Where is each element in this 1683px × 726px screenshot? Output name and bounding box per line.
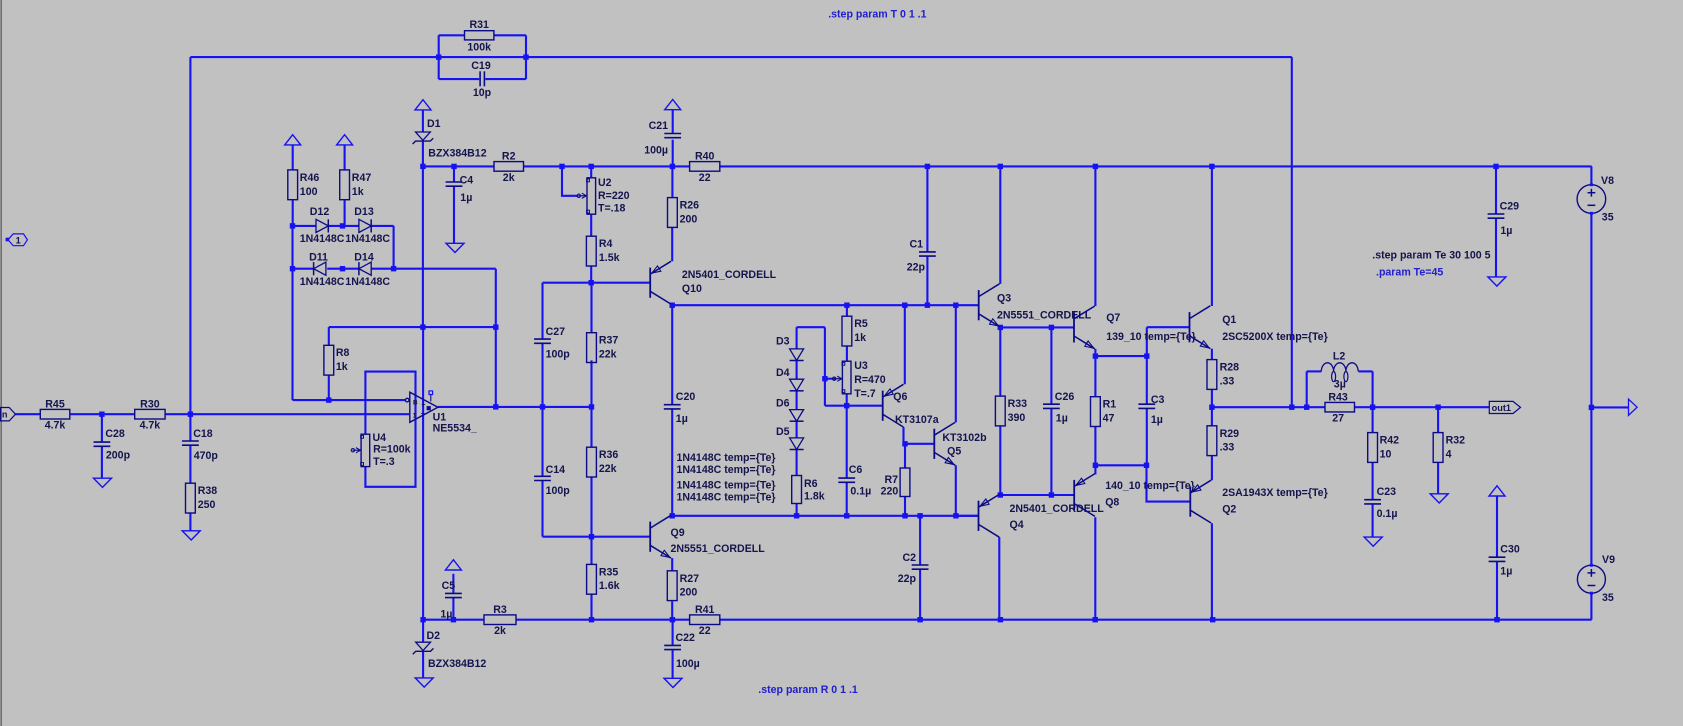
net label 1 [6,238,10,242]
transistor Q2 [1190,480,1211,523]
capacitor C20 [664,404,681,406]
junction (1496,166.4) [1493,164,1498,169]
svg-text:R7: R7 [884,474,898,486]
junction (905,443.8) [902,441,907,446]
junction (1095.4,166.4) [1093,164,1098,169]
resistor R29 [1207,426,1217,456]
wire C27 column [541,283,543,339]
transistor Q9 [650,515,671,558]
capacitor C14 [534,475,551,477]
wire C1 column [926,166,928,252]
wire D1 column [422,110,424,132]
svg-text:2SA1943X temp={Te}: 2SA1943X temp={Te} [1222,487,1328,499]
svg-text:22k: 22k [599,463,617,475]
junction (1211.9,407.2) [1209,405,1214,410]
junction (672.2,515.8) [670,513,675,518]
wire D11 row [293,268,314,270]
wire R33 column [999,327,1001,396]
svg-text:T=.7: T=.7 [854,388,876,400]
wire C20 column [671,305,673,404]
capacitor C23 [1364,499,1381,501]
svg-text:1µ: 1µ [1500,225,1512,237]
svg-text:L2: L2 [1333,350,1345,362]
wire bias rail y166 [423,165,494,167]
svg-text:R=220: R=220 [598,190,630,202]
junction (1051.4,327.4) [1049,325,1054,330]
junction (423.1,619.7) [420,617,425,622]
wire row y465 [1095,464,1146,466]
wire Q5 emitter column [955,465,957,516]
capacitor C5 [445,592,462,594]
svg-text:−: − [421,409,426,418]
junction (1095.4,356.1) [1093,353,1098,358]
svg-text:139_10 temp={Te}: 139_10 temp={Te} [1106,331,1196,343]
svg-text:R26: R26 [680,200,700,212]
wire C2 column [919,516,921,565]
capacitor C3 [1138,403,1155,405]
resistor R33 [995,396,1005,426]
behavioral resistor U3 [842,361,851,394]
svg-text:D6: D6 [776,398,790,410]
junction (672.2,305.2) [670,303,675,308]
svg-text:R45: R45 [45,398,65,410]
wire U2 control elbow [562,166,578,195]
svg-text:22: 22 [699,172,711,184]
wire V8 top corner [1590,166,1592,184]
capacitor C28 [94,441,111,443]
wire R37/R36/R35 column [590,283,592,333]
wire V- column x423 [422,166,424,327]
svg-text:1µ: 1µ [676,413,688,425]
svg-text:U2: U2 [598,177,612,189]
svg-text:4.7k: 4.7k [140,420,161,432]
wire C4 column [453,166,455,182]
voltage source V8 [1577,185,1606,214]
capacitor C1 [919,251,936,253]
transistor Q5 [934,422,955,465]
svg-text:0.1µ: 0.1µ [1377,508,1398,520]
svg-text:2k: 2k [503,172,515,184]
svg-text:Q6: Q6 [893,391,907,403]
resistor R8 [324,345,334,375]
junction (591.5,619.7) [589,617,594,622]
svg-text:D11: D11 [309,251,328,263]
svg-text:470p: 470p [194,450,219,462]
svg-text:100p: 100p [546,485,571,497]
diode D4 [790,379,804,391]
wire R31/C19 loop right [525,35,527,79]
junction (904.8,305.2) [902,303,907,308]
wire C26 column [1050,327,1052,404]
svg-text:C30: C30 [1500,543,1520,555]
svg-text:22k: 22k [599,349,617,361]
wire Q10 emitter column [671,227,673,261]
svg-text:35: 35 [1602,592,1614,604]
svg-text:1µ: 1µ [460,192,472,204]
wire Q7 collector column [1094,166,1096,306]
svg-text:R8: R8 [336,347,350,359]
wire C5 column [452,574,454,594]
ground [1488,277,1506,286]
junction (1051.4,495) [1049,492,1054,497]
wire row y356 [1095,355,1146,357]
wire Q1 emitter / R28 lead [1211,349,1213,360]
wire Q9 base lead [592,536,651,538]
junction (796.6,515.8) [794,513,799,518]
capacitor C6 [838,477,855,479]
svg-text:2N5551_CORDELL: 2N5551_CORDELL [671,543,766,555]
svg-text:200: 200 [680,587,698,599]
inductor L2 [1321,363,1358,372]
svg-text:R=470: R=470 [854,374,886,386]
junction (292.5,225.9) [290,223,295,228]
svg-text:1: 1 [16,235,21,245]
resistor R41 [690,615,720,625]
junction (438.7,57.1) [436,54,441,59]
wire VAS rail y305 [672,304,979,306]
svg-text:1.8k: 1.8k [804,490,825,502]
svg-text:D1: D1 [427,118,441,130]
wire driver emitter row y495 [1000,494,1074,496]
wire Q8 collector drop [1094,517,1096,620]
ground [1430,494,1448,503]
resistor R6 [792,476,802,504]
diode D11 [314,262,326,275]
junction (955.9,515.8) [953,513,958,518]
wire Q6 collector lead [902,427,904,444]
svg-text:0.1µ: 0.1µ [850,486,871,498]
svg-text:10: 10 [1380,448,1392,460]
junction (672.4,166.4) [670,164,675,169]
ground [415,678,433,687]
svg-text:22p: 22p [898,573,917,585]
transistor Q10 [650,261,671,304]
svg-text:R35: R35 [599,566,619,578]
resistor R45 [40,409,70,419]
junction (1000.4,619.7) [998,617,1003,622]
junction (927.4,166.4) [925,164,930,169]
resistor R35 [587,564,597,594]
svg-text:1: 1 [413,412,417,419]
junction (591.5,406.9) [589,404,594,409]
capacitor C27 [534,338,551,340]
wire Q1 collector column [1211,166,1213,306]
svg-text:1µ: 1µ [1056,412,1068,424]
svg-text:D3: D3 [776,336,790,348]
window border [0,0,2,726]
power flag [285,135,301,145]
svg-text:2SC5200X temp={Te}: 2SC5200X temp={Te} [1222,331,1328,343]
svg-text:100p: 100p [546,349,571,361]
svg-text:R4: R4 [599,238,613,250]
capacitor C4 [446,181,463,183]
svg-text:1N4148C temp={Te}: 1N4148C temp={Te} [677,480,776,492]
wire U3 control vertical [824,327,826,406]
svg-text:R37: R37 [599,335,619,347]
resistor R30 [135,409,165,419]
svg-text:R36: R36 [599,449,619,461]
resistor R3 [484,615,516,625]
ground [1364,537,1382,546]
wire Q1 base lead [1147,326,1190,328]
junction (328.8,400.1) [326,397,331,402]
wire R7 column [904,444,906,468]
svg-text:1k: 1k [352,186,364,198]
transistor Q6 [883,384,904,427]
wire node A vertical x292 [291,269,293,400]
wire output rail [1212,406,1325,408]
svg-text:V8: V8 [1601,175,1614,187]
wire V8 to V9 column [1590,213,1592,565]
svg-text:100k: 100k [467,41,491,53]
svg-text:U3: U3 [854,360,868,372]
svg-text:100: 100 [300,186,318,198]
voltage source V9 [1577,565,1605,593]
wire op-amp +input row [293,399,406,401]
svg-text:1N4148C: 1N4148C [300,233,345,245]
power flag [445,560,461,570]
diode D14 [359,262,371,275]
wire output arrow branch [1591,406,1628,408]
svg-text:out1: out1 [1492,403,1511,413]
wire C14 bottom corner [543,536,592,538]
capacitor C18 [182,440,199,442]
junction (422.9,166.4) [420,164,425,169]
svg-text:.step param Te 30 100 5: .step param Te 30 100 5 [1372,250,1490,262]
svg-text:R30: R30 [140,398,160,410]
wire Q10 base row [543,282,651,284]
svg-text:390: 390 [1008,412,1026,424]
svg-text:1µ: 1µ [440,608,452,620]
wire op-amp output [438,406,592,408]
wire R29 to Q2 emitter [1211,456,1213,481]
junction (454,166.4) [451,164,456,169]
svg-text:1.6k: 1.6k [599,580,620,592]
wire C3 column [1146,327,1148,404]
svg-text:C19: C19 [471,60,491,72]
junction (591.2,166.4) [589,164,594,169]
svg-text:3µ: 3µ [1334,378,1346,390]
svg-text:D5: D5 [776,426,790,438]
wire C6 column [846,406,848,478]
wire R32 column [1437,407,1439,432]
wire R5/U3 column [846,305,848,316]
svg-text:200: 200 [680,214,698,226]
svg-text:D14: D14 [354,251,374,263]
svg-text:2k: 2k [494,625,506,637]
svg-text:T=.3: T=.3 [373,456,395,468]
wire U4 top lead [364,400,366,434]
junction (1438.1,407.2) [1435,405,1440,410]
svg-text:C18: C18 [193,428,213,440]
diode D5 [790,438,804,450]
svg-text:C14: C14 [546,464,566,476]
resistor R42 [1368,433,1378,463]
svg-text:V9: V9 [1602,554,1615,566]
resistor R5 [842,316,852,346]
transistor Q1 [1190,306,1211,349]
svg-text:.33: .33 [1220,375,1235,387]
resistor R38 [186,483,196,513]
svg-text:1µ: 1µ [1151,414,1163,426]
junction (1291.8,407.2) [1289,405,1294,410]
svg-text:D2: D2 [427,630,441,642]
svg-text:NE5534_: NE5534_ [433,422,477,434]
wire Q2 base elbow [1147,465,1191,501]
wire R1 column [1094,356,1096,397]
junction (495.8,327.1) [493,324,498,329]
svg-text:D12: D12 [310,206,330,218]
transistor Q7 [1074,306,1095,349]
junction (824.9,378.7) [822,376,827,381]
svg-text:n: n [2,410,8,420]
wire U3 control tap [825,378,836,380]
svg-text:1k: 1k [336,361,348,373]
resistor R27 [667,571,677,601]
wire right feedback vertical x1292 [1291,57,1293,407]
junction (526,57.1) [523,54,528,59]
svg-text:KT3102b: KT3102b [942,432,987,444]
junction (955.8,305.2) [953,303,958,308]
resistor R31 [465,31,494,40]
svg-text:22: 22 [699,625,711,637]
svg-text:27: 27 [1332,413,1344,425]
svg-text:Q2: Q2 [1222,504,1236,516]
junction (1497,619.7) [1494,617,1499,622]
svg-text:BZX384B12: BZX384B12 [428,147,486,159]
svg-text:C20: C20 [676,391,696,403]
capacitor C26 [1043,403,1060,405]
svg-text:BZX384B12: BZX384B12 [428,658,486,670]
svg-text:4.7k: 4.7k [45,420,66,432]
svg-text:10p: 10p [473,87,492,99]
svg-text:1.5k: 1.5k [599,252,620,264]
diode D12 [316,219,328,232]
svg-text:1µ: 1µ [1500,565,1512,577]
wire R42 column [1372,407,1374,432]
svg-text:R27: R27 [680,573,700,585]
ground [664,678,682,687]
power flag [665,100,681,110]
svg-text:C29: C29 [1500,200,1520,212]
wire R8 top row [329,326,496,328]
junction (846.7,405.7) [844,403,849,408]
svg-text:C4: C4 [460,175,474,187]
ground [182,531,200,540]
transistor Q4 [979,494,1000,537]
capacitor C29 [1488,213,1505,215]
op-amp U1 [405,392,437,422]
svg-text:T=.18: T=.18 [598,202,625,214]
junction (292.5,268.7) [290,266,295,271]
svg-text:Q3: Q3 [997,292,1011,304]
svg-text:R3: R3 [493,604,507,616]
resistor R1 [1091,397,1101,427]
wire D13 cathode drop [393,226,395,269]
junction (927.4,305.2) [925,303,930,308]
svg-text:47: 47 [1103,413,1115,425]
svg-text:.step param T 0 1 .1: .step param T 0 1 .1 [828,8,926,20]
output arrow [1629,399,1638,415]
junction (190.4,414.2) [188,412,193,417]
junction (1095.4,465.3) [1093,463,1098,468]
svg-text:R38: R38 [198,485,218,497]
ground [446,243,464,252]
wire L2 leads [1307,370,1322,372]
wire L2 branch verticals [1306,371,1308,407]
junction (1095.2,619.7) [1093,617,1098,622]
svg-text:R42: R42 [1380,435,1400,447]
svg-text:4: 4 [1446,448,1452,460]
power flag [1489,486,1505,496]
svg-text:1N4148C temp={Te}: 1N4148C temp={Te} [677,464,776,476]
diode D3 [790,349,804,361]
svg-text:B: B [413,399,418,406]
junction (542.5,406.9) [540,404,545,409]
svg-text:250: 250 [198,499,216,511]
wire C23 bottom lead [1372,504,1374,537]
svg-text:Q1: Q1 [1222,314,1236,326]
wire Q9 emitter / R27 column [671,558,673,571]
wire Q3 collector column [999,166,1001,284]
zener diode D1 [416,132,431,140]
svg-text:1N4148C: 1N4148C [300,276,345,288]
input port n [1,408,16,421]
resistor R40 [690,162,720,172]
svg-text:Q10: Q10 [682,283,702,295]
wire D12 row [293,225,317,227]
svg-text:1N4148C temp={Te}: 1N4148C temp={Te} [677,491,776,503]
svg-text:R41: R41 [695,604,715,616]
svg-text:.param Te=45: .param Te=45 [1376,267,1443,279]
wire input rail [16,413,41,415]
junction (1372.6,407.2) [1370,405,1375,410]
junction (920.1,619.7) [917,617,922,622]
diode D6 [790,410,804,422]
junction (453.4,619.7) [451,617,456,622]
wire Q7 emitter lead [1094,349,1096,356]
svg-text:220: 220 [881,486,899,498]
wire R28/R29 node column [1211,389,1213,425]
svg-text:1N4148C: 1N4148C [345,233,390,245]
wire C22 column [672,620,674,646]
svg-text:100µ: 100µ [644,145,668,157]
wire C29 column [1495,166,1497,213]
capacitor C22 [664,644,681,646]
junction (905,515.8) [902,513,907,518]
capacitor C2 [912,564,929,566]
junction (846.7,515.8) [844,513,849,518]
wire Q8 emitter lead [1094,465,1096,474]
junction (1000.3,495) [998,492,1003,497]
wire U2/R4 column [590,166,592,177]
junction (591.5,536.7) [589,534,594,539]
wire feedback vertical x496 [495,269,497,407]
wire bias rail y516 [672,515,978,517]
svg-text:2N5401_CORDELL: 2N5401_CORDELL [682,269,777,281]
svg-text:Q8: Q8 [1105,497,1119,509]
wire diode string top elbow [797,326,825,328]
svg-text:C5: C5 [442,580,456,592]
svg-text:R29: R29 [1220,428,1240,440]
svg-text:C23: C23 [1377,486,1397,498]
svg-text:C3: C3 [1151,394,1165,406]
svg-text:R32: R32 [1446,435,1466,447]
junction (591.2,282.7) [589,280,594,285]
power flag [415,100,431,110]
svg-text:R6: R6 [804,478,818,490]
resistor R26 [668,198,678,228]
